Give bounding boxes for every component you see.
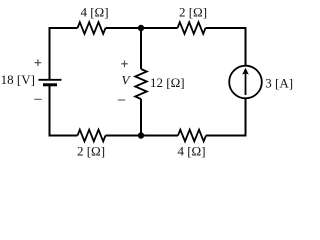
wire top-right (R 2ohm to corner) bbox=[206, 27, 246, 29]
wire right upper (corner to current source) bbox=[245, 27, 247, 66]
wire bottom-left (R 2ohm to corner) bbox=[50, 135, 78, 137]
svg-text:3 [A]: 3 [A] bbox=[265, 76, 293, 91]
svg-text:18 [V]: 18 [V] bbox=[1, 72, 35, 87]
node B junction dot bbox=[138, 132, 144, 138]
svg-text:4 [Ω]: 4 [Ω] bbox=[80, 5, 108, 20]
wire bottom-middle (R 4ohm to R 2ohm through node B) bbox=[106, 135, 179, 137]
wire left lower (battery to corner) bbox=[49, 86, 51, 137]
wire bottom-right (corner to R 4ohm) bbox=[206, 135, 246, 137]
wire top-left (corner to R 4ohm) bbox=[50, 27, 78, 29]
node A junction dot bbox=[138, 25, 144, 31]
wire middle lower (R 12ohm to node B) bbox=[140, 99, 142, 136]
resistor 2[ohm] bottom-left bbox=[78, 130, 106, 142]
resistor 12[ohm] middle bbox=[135, 69, 147, 99]
battery plus sign bbox=[35, 59, 42, 66]
voltage source 18[V] battery bbox=[39, 80, 62, 85]
svg-text:2 [Ω]: 2 [Ω] bbox=[77, 143, 105, 158]
battery minus sign bbox=[34, 98, 41, 100]
wire left upper (corner to battery) bbox=[49, 27, 51, 79]
wire top-middle (R 4ohm to R 2ohm through node A) bbox=[106, 27, 178, 29]
resistor 4[ohm] top-left bbox=[78, 22, 106, 34]
current source 3[A] bbox=[229, 66, 262, 99]
wire right lower (current source to corner) bbox=[245, 98, 247, 136]
voltage V minus sign bbox=[118, 99, 125, 101]
wire middle upper (node A to R 12ohm) bbox=[140, 28, 142, 69]
svg-text:4 [Ω]: 4 [Ω] bbox=[177, 143, 205, 158]
svg-text:2 [Ω]: 2 [Ω] bbox=[179, 5, 207, 20]
resistor 4[ohm] bottom-right bbox=[178, 130, 206, 142]
voltage V plus sign bbox=[121, 61, 128, 68]
svg-text:12 [Ω]: 12 [Ω] bbox=[150, 75, 185, 90]
resistor 2[ohm] top-right bbox=[178, 22, 206, 34]
